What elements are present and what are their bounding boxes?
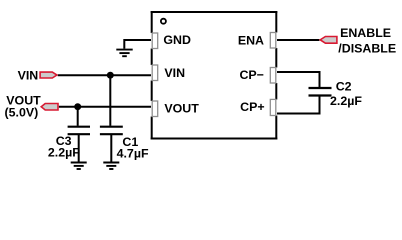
svg-text:ENA: ENA: [238, 34, 264, 48]
svg-text:2.2µF: 2.2µF: [48, 145, 80, 159]
svg-text:(5.0V): (5.0V): [5, 106, 39, 120]
svg-text:CP−: CP−: [239, 68, 263, 82]
svg-text:/DISABLE: /DISABLE: [338, 42, 396, 56]
svg-text:GND: GND: [163, 33, 191, 47]
svg-text:VIN: VIN: [18, 68, 39, 82]
svg-text:2.2µF: 2.2µF: [330, 94, 362, 108]
svg-text:ENABLE: ENABLE: [340, 26, 391, 40]
svg-text:CP+: CP+: [240, 100, 264, 114]
svg-text:VOUT: VOUT: [164, 101, 199, 115]
svg-text:C2: C2: [336, 79, 352, 93]
svg-text:4.7µF: 4.7µF: [117, 146, 149, 160]
svg-text:VIN: VIN: [164, 66, 185, 80]
